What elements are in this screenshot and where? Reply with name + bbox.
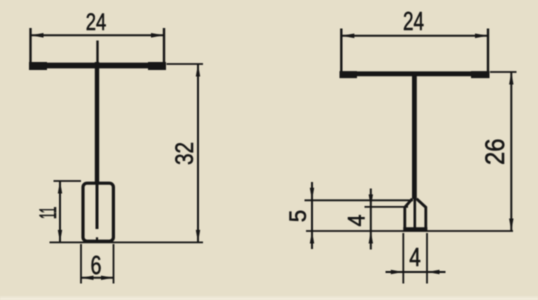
svg-text:11: 11 xyxy=(35,207,62,220)
svg-text:6: 6 xyxy=(91,252,102,280)
svg-text:24: 24 xyxy=(403,8,424,36)
svg-text:24: 24 xyxy=(86,9,107,36)
svg-text:4: 4 xyxy=(409,244,421,272)
svg-text:32: 32 xyxy=(171,142,199,165)
svg-text:26: 26 xyxy=(480,138,510,165)
svg-text:5: 5 xyxy=(285,210,312,223)
svg-text:4: 4 xyxy=(343,215,370,227)
